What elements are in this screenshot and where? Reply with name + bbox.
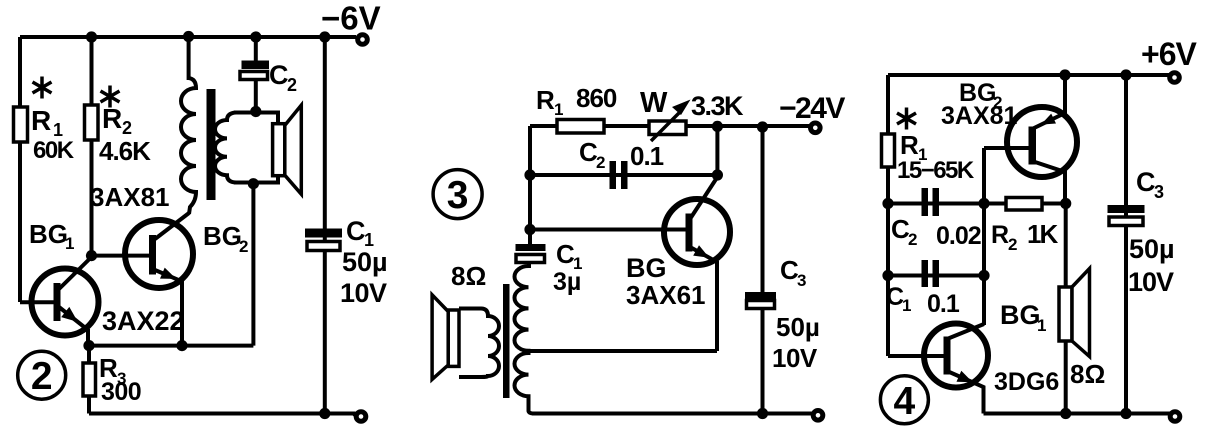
- wire top supply rail circuit 2: [20, 35, 356, 39]
- wire primary feed: [187, 36, 191, 80]
- svg-text:4.6K: 4.6K: [99, 136, 151, 166]
- svg-text:1: 1: [1037, 316, 1046, 335]
- speaker frame circuit 2: [273, 124, 285, 176]
- resistor R3: [83, 363, 96, 396]
- junction node C2 left: [524, 169, 535, 180]
- junction node top C1: [319, 31, 330, 42]
- svg-text:10V: 10V: [772, 343, 818, 373]
- svg-text:3µ: 3µ: [553, 268, 581, 296]
- svg-text:R: R: [991, 221, 1009, 249]
- svg-text:+6V: +6V: [1141, 36, 1197, 72]
- transistor BG1 circle: [32, 269, 99, 336]
- svg-text:8Ω: 8Ω: [451, 261, 486, 291]
- wire left rail circuit 2: [18, 37, 22, 302]
- svg-text:C: C: [346, 216, 366, 246]
- speaker horn circuit 3: [432, 295, 448, 380]
- svg-text:2: 2: [1008, 235, 1017, 254]
- capacitor C2 plate b: [621, 161, 628, 189]
- transformer T secondary loop: [459, 309, 499, 378]
- wire C2 row: [888, 202, 984, 206]
- svg-text:3: 3: [1154, 182, 1164, 202]
- wire C1 row: [888, 274, 984, 278]
- junction node feedback C1: [978, 270, 989, 281]
- svg-text:C: C: [269, 60, 289, 90]
- wire BG1 collector: [59, 257, 92, 289]
- wire top rail circuit 4: [888, 73, 1169, 77]
- transistor BG2 base bar: [1029, 127, 1037, 165]
- wire bottom rail circuit 2: [89, 414, 355, 416]
- junction node primary top: [183, 31, 194, 42]
- capacitor C2 plate a: [922, 188, 929, 216]
- wire speaker feed: [1064, 204, 1068, 289]
- resistor R1: [557, 120, 604, 134]
- BG2 emitter arrow: [1041, 114, 1056, 125]
- transistor BG1 circle: [924, 324, 988, 388]
- svg-text:BG: BG: [1000, 300, 1041, 330]
- wire BG2 collector: [1032, 161, 1065, 204]
- svg-text:10V: 10V: [1128, 267, 1174, 297]
- transistor BG1 base bar: [54, 283, 61, 321]
- capacitor C3 plate b: [1109, 217, 1143, 226]
- capacitor C2 plate a: [242, 61, 270, 70]
- wire base row: [530, 228, 686, 232]
- transformer T1 core: [207, 89, 216, 200]
- svg-text:BG: BG: [626, 253, 667, 283]
- wire base-feedback vertical: [982, 148, 986, 325]
- svg-text:860: 860: [576, 83, 617, 113]
- svg-text:50µ: 50µ: [342, 247, 388, 277]
- svg-text:2: 2: [287, 75, 297, 95]
- transformer T core: [503, 284, 510, 398]
- junction node top R2: [86, 31, 97, 42]
- svg-text:10V: 10V: [340, 278, 387, 308]
- svg-text:R: R: [536, 85, 555, 115]
- resistor R2: [1006, 198, 1042, 211]
- svg-text:50µ: 50µ: [776, 312, 820, 342]
- capacitor C3 plate a: [1108, 205, 1145, 213]
- wire C2 row: [530, 173, 717, 177]
- transformer T primary winding tapped: [515, 266, 535, 414]
- svg-text:2: 2: [596, 153, 605, 172]
- speaker frame circuit 3: [448, 310, 459, 366]
- junction node emitter BG2: [176, 340, 187, 351]
- speaker horn circuit 4: [1072, 269, 1090, 357]
- wire BG2 base: [92, 254, 151, 258]
- svg-text:3AX22: 3AX22: [102, 306, 185, 336]
- terminal bottom circuit 3: [813, 411, 823, 421]
- svg-text:C: C: [1136, 167, 1156, 197]
- capacitor C1 plate a: [305, 229, 342, 238]
- BG1 emitter arrow: [61, 307, 78, 322]
- wire emitter rail circuit 2: [89, 344, 253, 348]
- svg-text:R: R: [900, 130, 919, 160]
- junction node bottom C1: [319, 408, 330, 419]
- transistor BG2 circle: [125, 220, 193, 288]
- svg-text:1: 1: [554, 100, 563, 119]
- svg-text:BG: BG: [29, 219, 68, 249]
- BG emitter arrow: [693, 245, 709, 258]
- wire BG1 base: [888, 354, 944, 358]
- junction node C3 branch top: [757, 121, 768, 132]
- junction node speaker bottom: [1060, 408, 1071, 419]
- transistor BG2 base bar: [149, 235, 156, 275]
- terminal +6V: [1170, 73, 1180, 83]
- svg-text:3: 3: [447, 174, 469, 217]
- svg-text:8Ω: 8Ω: [1070, 359, 1105, 389]
- svg-text:0.1: 0.1: [630, 141, 664, 171]
- svg-text:0.1: 0.1: [927, 290, 960, 318]
- svg-text:0.02: 0.02: [936, 222, 981, 250]
- svg-text:3.3K: 3.3K: [691, 91, 744, 121]
- wire secondary bottom: [234, 176, 278, 183]
- wire C3 branch: [1124, 75, 1128, 414]
- potentiometer W body: [649, 121, 686, 135]
- svg-text:50µ: 50µ: [1129, 234, 1175, 264]
- wire BG1 collector: [947, 324, 984, 339]
- terminal -6V: [358, 35, 368, 45]
- junction node base row: [524, 224, 535, 235]
- transistor BG1 base bar: [944, 337, 951, 375]
- wire BG1 base: [20, 300, 55, 304]
- svg-text:3DG6: 3DG6: [994, 368, 1059, 396]
- wire C1 branch: [323, 37, 327, 414]
- figure number 4 circle: [880, 376, 928, 424]
- wire collector branch: [715, 126, 719, 175]
- junction node collector branch top: [712, 121, 723, 132]
- wire left rail circuit 4: [886, 75, 890, 356]
- wire speaker to bottom rail: [1064, 341, 1068, 414]
- capacitor C1 plate a: [516, 244, 546, 251]
- wire emitter to coil tap: [529, 349, 718, 353]
- svg-text:2: 2: [239, 237, 248, 256]
- wire bottom rail circuit 4: [984, 412, 1171, 416]
- junction node C3 bottom: [1120, 408, 1131, 419]
- BG1 emitter arrow: [957, 371, 973, 383]
- potentiometer W arrowhead: [672, 100, 691, 116]
- capacitor C1 plate b: [933, 260, 940, 287]
- wire C1 to coil: [527, 262, 531, 268]
- capacitor C1 plate b: [307, 242, 340, 251]
- transformer T1 secondary winding: [215, 113, 236, 183]
- wire BG2 emitter: [1032, 75, 1065, 129]
- terminal bottom circuit 2: [356, 412, 366, 422]
- capacitor C2 plate b: [933, 188, 940, 216]
- svg-text:−6V: −6V: [321, 0, 381, 37]
- svg-text:3: 3: [797, 271, 806, 290]
- potentiometer W arrow: [651, 111, 681, 141]
- svg-text:BG: BG: [203, 221, 242, 251]
- wire BG1 emitter: [59, 307, 88, 346]
- wire BG1 emitter: [947, 371, 984, 414]
- resistor R1: [14, 107, 28, 142]
- svg-text:3AX81: 3AX81: [941, 102, 1018, 130]
- capacitor C2 plate b: [240, 72, 268, 80]
- wire top rail circuit 3: [530, 124, 809, 128]
- svg-text:W: W: [640, 87, 668, 119]
- capacitor C3 plate a: [745, 292, 776, 299]
- transistor BG circle: [664, 199, 730, 265]
- wire R3 bottom to ground rail: [87, 395, 91, 414]
- junction node emitter left: [83, 340, 94, 351]
- junction node C1 left: [882, 270, 893, 281]
- wire speaker bottom to emitter rail: [251, 184, 255, 346]
- junction node C2 top: [250, 31, 261, 42]
- transistor BG base bar: [686, 214, 693, 252]
- wire C2 to speaker node: [254, 79, 258, 112]
- svg-text:15−65K: 15−65K: [897, 157, 975, 184]
- svg-text:R: R: [31, 105, 51, 136]
- capacitor C2 drop wire: [254, 37, 258, 62]
- capacitor C3 plate b: [747, 301, 775, 309]
- svg-text:R: R: [102, 103, 122, 134]
- svg-text:300: 300: [101, 378, 141, 406]
- transformer T1 primary winding: [181, 78, 196, 214]
- resistor R2: [85, 105, 99, 140]
- wire BG2 collector: [155, 213, 189, 239]
- wire R2 row: [984, 202, 1066, 206]
- capacitor C1 plate a: [922, 260, 929, 287]
- svg-text:1: 1: [65, 234, 74, 253]
- wire R2 branch: [90, 37, 94, 256]
- wire secondary top: [234, 113, 278, 125]
- svg-text:3AX61: 3AX61: [626, 280, 706, 310]
- svg-text:3AX81: 3AX81: [90, 182, 170, 212]
- figure number 3 circle: [433, 170, 482, 219]
- svg-text:2: 2: [908, 230, 917, 249]
- wire BG2 emitter: [155, 270, 182, 346]
- junction node collector: [712, 169, 723, 180]
- asterisk for R2: [101, 86, 120, 108]
- terminal -24V: [811, 123, 821, 133]
- svg-text:1K: 1K: [1027, 219, 1058, 249]
- wire R3 top: [87, 346, 91, 364]
- wire left rail circuit 3: [528, 126, 532, 248]
- BG2 emitter arrow: [160, 268, 176, 279]
- junction node speaker bottom: [248, 178, 259, 189]
- transistor BG2 circle: [1007, 107, 1077, 177]
- junction node R2 right: [1060, 198, 1071, 209]
- asterisk for R1: [897, 108, 916, 130]
- wire C3 branch: [761, 127, 765, 414]
- junction node C2 left: [882, 198, 893, 209]
- svg-text:2: 2: [31, 355, 53, 398]
- capacitor C2 plate a: [610, 161, 617, 189]
- capacitor C1 plate b: [516, 255, 545, 263]
- svg-text:2: 2: [122, 118, 132, 138]
- svg-text:60K: 60K: [33, 137, 75, 164]
- junction node top rail BG2: [1059, 69, 1070, 80]
- junction node feedback C2: [978, 198, 989, 209]
- junction node C3 top: [1120, 69, 1131, 80]
- junction node speaker top: [250, 106, 261, 117]
- terminal bottom circuit 4: [1170, 412, 1180, 422]
- svg-text:4: 4: [894, 380, 916, 423]
- figure number 2 circle: [18, 351, 66, 399]
- speaker frame circuit 4: [1059, 287, 1072, 341]
- junction node C3 bottom: [757, 408, 768, 419]
- wire BG2 base: [984, 146, 1029, 150]
- junction node base BG2: [86, 250, 97, 261]
- asterisk for R1: [33, 77, 52, 99]
- resistor R1: [882, 134, 895, 167]
- svg-text:−24V: −24V: [779, 92, 845, 125]
- speaker horn circuit 2: [285, 105, 302, 194]
- wire BG emitter: [690, 247, 717, 351]
- svg-text:1: 1: [902, 296, 911, 315]
- wire bottom rail circuit 3: [532, 412, 812, 416]
- wire BG collector: [690, 177, 717, 219]
